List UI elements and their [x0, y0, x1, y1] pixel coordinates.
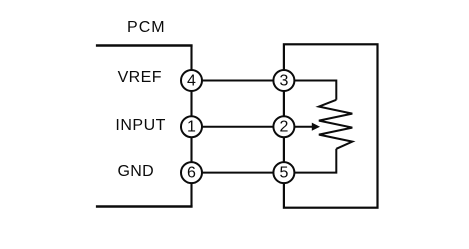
PCM box top edge: [96, 44, 193, 46]
resistor (potentiometer element): [319, 100, 352, 149]
wiper arrow from pin 2: [284, 126, 313, 128]
pin 4: [181, 70, 202, 91]
pin 2: [273, 116, 294, 137]
pin 3: [273, 70, 294, 91]
svg-text:INPUT: INPUT: [115, 117, 165, 134]
wire from resistor bottom to pin 5: [284, 149, 336, 173]
sensor box outline: [284, 44, 378, 207]
pin 1: [181, 116, 202, 137]
wire INPUT row (pin 1 to pin 2): [192, 126, 284, 128]
wire from pin 3 to resistor top: [284, 81, 336, 100]
svg-text:PCM: PCM: [127, 19, 166, 36]
svg-text:2: 2: [279, 119, 288, 136]
svg-text:4: 4: [187, 72, 196, 89]
svg-text:VREF: VREF: [118, 69, 162, 86]
PCM box right edge (vertical through pins 4,1,6): [190, 46, 192, 207]
wire GND row (pin 6 to pin 5): [192, 172, 284, 174]
pin 6: [181, 162, 202, 183]
wire VREF row (pin 4 to pin 3): [192, 80, 284, 82]
svg-text:6: 6: [187, 164, 196, 181]
svg-text:3: 3: [279, 72, 288, 89]
PCM box bottom edge: [96, 205, 193, 207]
svg-text:GND: GND: [118, 163, 154, 180]
pin 5: [273, 162, 294, 183]
svg-text:1: 1: [187, 119, 196, 136]
svg-text:5: 5: [279, 164, 288, 181]
